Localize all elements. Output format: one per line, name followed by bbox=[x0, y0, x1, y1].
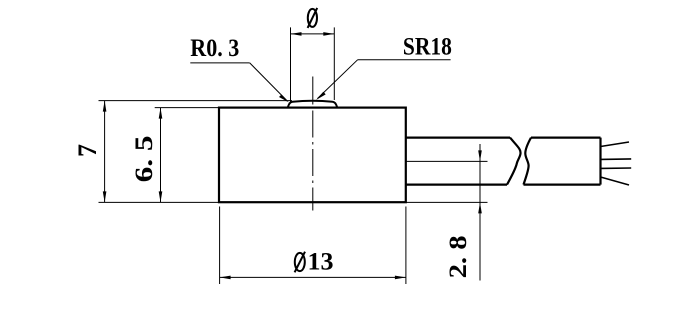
label O bbox=[308, 8, 318, 28]
wire 3 bbox=[601, 167, 632, 169]
vertical centerline (dash-dot) bbox=[312, 77, 314, 211]
svg-text:6. 5: 6. 5 bbox=[131, 135, 158, 182]
label O13 bbox=[295, 252, 305, 273]
label 7 bbox=[73, 144, 102, 157]
svg-text:SR18: SR18 bbox=[403, 34, 452, 61]
svg-text:13: 13 bbox=[308, 248, 334, 275]
svg-text:2. 8: 2. 8 bbox=[445, 235, 472, 278]
label 6.5 bbox=[131, 135, 158, 182]
dimension O (button diameter, top) bbox=[291, 27, 335, 102]
svg-text:R0. 3: R0. 3 bbox=[190, 35, 239, 62]
leader SR18 bbox=[318, 60, 451, 99]
leader R0.3 bbox=[190, 63, 287, 101]
dimension 6.5 (body height, left inner) bbox=[155, 108, 219, 203]
dimension O13 (body diameter, bottom) bbox=[220, 207, 406, 285]
spherical button boss SR18 bbox=[288, 101, 337, 107]
wire 1 bbox=[601, 142, 630, 147]
cable segment 1 bbox=[406, 138, 521, 185]
body outline (13 x 6.5 load cell body) bbox=[219, 108, 406, 203]
dimension 2.8 (cable centre height) bbox=[406, 144, 488, 281]
svg-text:7: 7 bbox=[73, 144, 102, 157]
wire 2 bbox=[601, 158, 632, 161]
label 2.8 bbox=[445, 235, 472, 278]
dimension 7 (overall height, left outer) bbox=[99, 101, 293, 203]
cable break / segment 2 bbox=[524, 138, 601, 185]
wire 4 bbox=[601, 177, 630, 185]
